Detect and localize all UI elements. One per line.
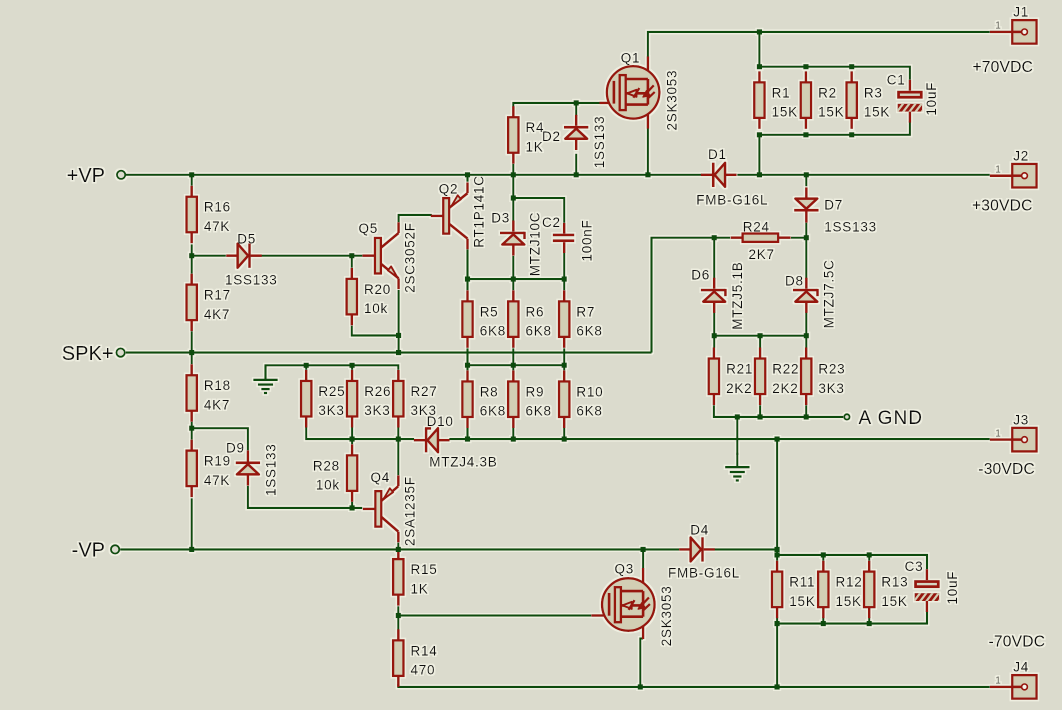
- junction: [712, 235, 717, 240]
- junction: [349, 253, 354, 258]
- wire -VP rail: [120, 548, 679, 550]
- svg-text:R18: R18: [204, 378, 231, 393]
- wire: [512, 279, 514, 290]
- svg-text:4K7: 4K7: [204, 307, 230, 322]
- wire: [791, 237, 806, 239]
- junction: [396, 437, 401, 442]
- svg-text:FMB-G16L: FMB-G16L: [696, 192, 768, 207]
- svg-text:D8: D8: [785, 274, 804, 289]
- svg-text:J2: J2: [1013, 149, 1029, 164]
- wire Q4 base net: [248, 486, 362, 508]
- svg-text:10uF: 10uF: [945, 571, 960, 605]
- svg-text:+30VDC: +30VDC: [972, 197, 1033, 214]
- junction: [511, 363, 516, 368]
- wire: [397, 606, 399, 629]
- diode D7: [794, 187, 818, 222]
- wire R8-R10 top bus: [468, 364, 565, 366]
- wire: [575, 103, 577, 116]
- svg-text:MTZJ5.1B: MTZJ5.1B: [730, 261, 745, 329]
- svg-text:R10: R10: [576, 384, 603, 399]
- resistor R13: [864, 561, 908, 619]
- junction: [511, 277, 516, 282]
- junction: [304, 363, 309, 368]
- svg-text:6K8: 6K8: [480, 404, 506, 419]
- ground left: [253, 365, 277, 393]
- transistor Q5 2SC3052F: [362, 222, 398, 289]
- svg-text:15K: 15K: [818, 105, 844, 120]
- wire Q5 base net: [251, 255, 363, 257]
- junction: [638, 684, 643, 689]
- resistor R8: [462, 370, 506, 428]
- junction: [189, 172, 194, 177]
- transistor Q3 2SK3053: [602, 578, 655, 631]
- junction: [645, 172, 650, 177]
- connector J4: [990, 660, 1037, 699]
- wire: [868, 617, 870, 623]
- svg-text:6K8: 6K8: [480, 324, 506, 339]
- junction: [574, 172, 579, 177]
- svg-text:10uF: 10uF: [924, 82, 939, 116]
- svg-text:1SS133: 1SS133: [592, 116, 607, 169]
- resistor R25: [301, 370, 345, 428]
- wire: [805, 405, 807, 417]
- svg-text:R12: R12: [836, 575, 863, 590]
- svg-text:100nF: 100nF: [580, 219, 595, 261]
- wire bias bus: [468, 278, 565, 280]
- junction: [189, 350, 194, 355]
- svg-text:R1: R1: [772, 85, 791, 100]
- wire: [466, 279, 468, 290]
- svg-text:MTZJ10C: MTZJ10C: [528, 212, 543, 277]
- wire: [776, 555, 778, 561]
- junction: [511, 172, 516, 177]
- svg-text:R3: R3: [864, 85, 883, 100]
- svg-text:R19: R19: [204, 454, 231, 469]
- resistor R1: [754, 71, 798, 129]
- junction: [775, 547, 780, 552]
- svg-text:R23: R23: [818, 362, 845, 377]
- wire: [805, 223, 807, 238]
- svg-text:D4: D4: [690, 523, 709, 538]
- svg-text:D10: D10: [427, 414, 454, 429]
- svg-text:R28: R28: [313, 458, 340, 473]
- node -VP: [72, 540, 120, 562]
- junction: [465, 172, 470, 177]
- wire A GND bus: [714, 405, 843, 417]
- wire: [512, 164, 514, 175]
- wire: [776, 624, 778, 687]
- resistor R20: [347, 268, 391, 326]
- svg-text:R11: R11: [789, 575, 815, 590]
- junction: [350, 505, 355, 510]
- svg-text:RT1P141C: RT1P141C: [472, 175, 487, 248]
- resistor R21: [709, 348, 753, 406]
- wire Q5-Q2 net: [399, 215, 432, 222]
- junction: [562, 277, 567, 282]
- svg-text:3K3: 3K3: [364, 403, 390, 418]
- wire: [805, 312, 807, 336]
- connector J3: [990, 412, 1037, 451]
- wire: [191, 498, 193, 549]
- svg-text:R8: R8: [480, 384, 499, 399]
- svg-text:1SS133: 1SS133: [824, 220, 877, 235]
- svg-text:R17: R17: [204, 288, 231, 303]
- resistor R12: [818, 561, 862, 619]
- wire: [822, 555, 824, 561]
- svg-text:R26: R26: [364, 384, 391, 399]
- svg-text:R27: R27: [411, 384, 438, 399]
- junction: [775, 621, 780, 626]
- svg-text:J3: J3: [1013, 412, 1029, 427]
- wire Q5 emitter net: [398, 290, 400, 353]
- svg-text:R20: R20: [364, 282, 391, 297]
- svg-text:D1: D1: [708, 147, 727, 162]
- svg-text:R5: R5: [480, 304, 499, 319]
- connector J1: [990, 5, 1037, 44]
- svg-text:6K8: 6K8: [576, 324, 602, 339]
- junction: [189, 253, 194, 258]
- capacitor C1 body: [887, 73, 939, 123]
- svg-text:R2: R2: [818, 85, 837, 100]
- junction: [465, 363, 470, 368]
- junction: [757, 132, 762, 137]
- wire: [466, 250, 468, 280]
- junction: [574, 100, 579, 105]
- svg-text:15K: 15K: [772, 105, 798, 120]
- svg-text:15K: 15K: [864, 105, 890, 120]
- junction: [735, 414, 740, 419]
- junction: [396, 547, 401, 552]
- wire: [713, 336, 715, 348]
- svg-text:-70VDC: -70VDC: [989, 633, 1046, 650]
- resistor R19: [187, 440, 231, 498]
- svg-text:2SA1235F: 2SA1235F: [403, 476, 418, 546]
- wire: [758, 32, 760, 67]
- resistor R18: [187, 364, 231, 422]
- wire D9 top net: [192, 428, 248, 450]
- junction: [804, 414, 809, 419]
- junction: [867, 621, 872, 626]
- wire +70VDC line: [648, 32, 990, 57]
- svg-text:3K3: 3K3: [318, 403, 344, 418]
- wire: [822, 617, 824, 623]
- wire: [191, 422, 193, 440]
- wire ground drop: [736, 417, 738, 455]
- svg-text:J4: J4: [1013, 660, 1029, 675]
- junction: [511, 437, 516, 442]
- wire: [805, 175, 807, 187]
- wire: [351, 502, 353, 508]
- svg-text:D7: D7: [824, 198, 843, 213]
- svg-text:-VP: -VP: [72, 540, 105, 562]
- svg-text:R7: R7: [576, 304, 595, 319]
- wire -30VDC line: [449, 438, 990, 440]
- svg-text:Q4: Q4: [371, 470, 391, 485]
- junction: [712, 333, 717, 338]
- svg-text:R24: R24: [743, 219, 770, 234]
- junction: [775, 552, 780, 557]
- svg-text:6K8: 6K8: [526, 404, 552, 419]
- wire: [759, 336, 761, 348]
- resistor R9: [508, 370, 552, 428]
- junction: [775, 437, 780, 442]
- wire: [758, 135, 760, 175]
- svg-text:MTZJ7.5C: MTZJ7.5C: [821, 259, 836, 328]
- wire: [397, 427, 399, 439]
- wire: [512, 428, 514, 439]
- wire: [563, 428, 565, 439]
- wire Q3 source net: [640, 639, 643, 687]
- wire: [776, 617, 778, 623]
- wire R1-C1 top bus: [759, 67, 910, 80]
- svg-text:Q3: Q3: [615, 562, 635, 577]
- svg-text:10k: 10k: [364, 301, 388, 316]
- wire: [776, 549, 778, 555]
- svg-text:2SK3053: 2SK3053: [665, 70, 680, 131]
- svg-text:1: 1: [995, 428, 1001, 439]
- resistor R2: [801, 71, 845, 129]
- transistor Q4 2SA1235F: [363, 475, 399, 542]
- svg-text:10k: 10k: [316, 478, 340, 493]
- svg-text:2SC3052F: 2SC3052F: [403, 222, 418, 293]
- svg-text:1SS133: 1SS133: [225, 272, 278, 287]
- wire: [512, 348, 514, 370]
- svg-text:MTZJ4.3B: MTZJ4.3B: [429, 455, 497, 470]
- junction: [757, 29, 762, 34]
- resistor R16: [187, 186, 231, 244]
- junction: [849, 132, 854, 137]
- svg-text:R22: R22: [772, 362, 799, 377]
- wire: [191, 331, 193, 352]
- junction: [465, 277, 470, 282]
- svg-text:47K: 47K: [204, 219, 230, 234]
- resistor R24: [731, 219, 791, 262]
- resistor R14: [393, 629, 437, 687]
- resistor R27: [393, 370, 437, 428]
- svg-text:4K7: 4K7: [204, 398, 230, 413]
- svg-text:3K3: 3K3: [818, 381, 844, 396]
- svg-text:6K8: 6K8: [526, 324, 552, 339]
- wire Q3 gate net: [398, 614, 591, 616]
- svg-text:FMB-G16L: FMB-G16L: [668, 566, 740, 581]
- wire: [192, 255, 226, 257]
- svg-text:2SK3053: 2SK3053: [659, 585, 674, 646]
- capacitor C3 body: [905, 559, 960, 612]
- resistor R4: [508, 106, 544, 164]
- diode D9: [236, 450, 260, 485]
- junction: [562, 363, 567, 368]
- junction: [804, 235, 809, 240]
- wire R11-C3 top bus: [777, 555, 927, 569]
- wire: [512, 256, 514, 279]
- wire: [351, 427, 353, 439]
- wire: [713, 312, 715, 336]
- svg-text:SPK+: SPK+: [62, 343, 114, 365]
- zener diode D3: [500, 221, 525, 256]
- wire: [805, 336, 807, 348]
- wire: [563, 348, 565, 370]
- svg-text:R21: R21: [726, 362, 753, 377]
- junction: [396, 333, 401, 338]
- transistor Q1 2SK3053 leads: [600, 57, 648, 129]
- node SPK+: [62, 343, 125, 365]
- resistor R6: [508, 290, 552, 348]
- svg-text:1: 1: [995, 165, 1001, 176]
- resistor R23: [801, 348, 845, 406]
- svg-text:R25: R25: [318, 384, 345, 399]
- svg-text:-30VDC: -30VDC: [978, 461, 1035, 478]
- ground right: [725, 453, 749, 481]
- wire zener bus: [714, 335, 806, 337]
- wire: [512, 175, 514, 221]
- wire C2 top net: [513, 198, 564, 223]
- wire: [563, 253, 565, 279]
- svg-text:Q1: Q1: [621, 51, 641, 66]
- junction: [189, 426, 194, 431]
- junction: [867, 552, 872, 557]
- junction: [641, 547, 646, 552]
- junction: [803, 64, 808, 69]
- resistor R28: [313, 444, 357, 502]
- junction: [350, 363, 355, 368]
- resistor R26: [347, 370, 391, 428]
- wire: [191, 353, 193, 365]
- svg-text:1K: 1K: [411, 581, 429, 596]
- svg-text:R15: R15: [411, 562, 438, 577]
- svg-text:470: 470: [411, 663, 436, 678]
- resistor R10: [559, 370, 603, 428]
- junction: [821, 552, 826, 557]
- transistor Q2 RT1P141C: [431, 182, 468, 249]
- wire -70VDC line: [398, 684, 990, 687]
- wire R1-C1 bottom bus: [759, 121, 910, 135]
- resistor R5: [462, 290, 506, 348]
- svg-text:R9: R9: [526, 384, 545, 399]
- svg-text:R13: R13: [881, 575, 908, 590]
- wire: [351, 439, 353, 444]
- node A GND: [844, 408, 923, 429]
- svg-text:D5: D5: [237, 232, 256, 247]
- wire R20 bottom net: [352, 326, 399, 336]
- junction: [396, 350, 401, 355]
- junction: [758, 414, 763, 419]
- wire -30V line left: [306, 427, 414, 439]
- diode D2: [564, 115, 588, 150]
- wire Q4 emitter net: [397, 439, 399, 475]
- svg-text:1SS133: 1SS133: [263, 443, 278, 496]
- wire: [351, 365, 353, 370]
- wire Q3 drain net: [642, 549, 644, 568]
- wire: [305, 365, 307, 370]
- diode D4: [679, 537, 715, 561]
- transistor Q3 2SK3053 leads: [591, 568, 643, 639]
- svg-text:A GND: A GND: [859, 408, 924, 429]
- wire SPK+ rail: [126, 352, 652, 354]
- svg-text:D2: D2: [542, 129, 561, 144]
- transistor Q1 2SK3053: [607, 66, 660, 119]
- capacitor C2: [542, 215, 595, 261]
- junction: [189, 547, 194, 552]
- junction: [804, 172, 809, 177]
- junction: [804, 333, 809, 338]
- wire: [575, 154, 577, 175]
- svg-text:D6: D6: [691, 268, 710, 283]
- wire: [776, 439, 778, 549]
- junction: [511, 195, 516, 200]
- wire: [397, 543, 399, 550]
- wire R11-C3 bottom bus: [777, 611, 927, 623]
- wire: [805, 238, 807, 279]
- wire R25-R27 top bus: [266, 365, 399, 379]
- junction: [562, 437, 567, 442]
- svg-text:Q5: Q5: [359, 221, 379, 236]
- junction: [849, 64, 854, 69]
- svg-text:6K8: 6K8: [576, 404, 602, 419]
- svg-text:2K7: 2K7: [749, 247, 775, 262]
- svg-text:Q2: Q2: [439, 182, 459, 197]
- junction: [758, 333, 763, 338]
- svg-text:R6: R6: [526, 304, 545, 319]
- zener diode D10: [414, 428, 450, 452]
- svg-text:J1: J1: [1013, 5, 1029, 20]
- wire: [715, 548, 778, 550]
- svg-text:+70VDC: +70VDC: [973, 59, 1034, 76]
- svg-text:15K: 15K: [789, 594, 815, 609]
- junction: [775, 684, 780, 689]
- svg-text:C2: C2: [542, 215, 561, 230]
- resistor R11: [772, 561, 816, 619]
- wire SPK+ riser: [652, 238, 731, 353]
- wire +VP rail: [126, 174, 702, 176]
- junction: [757, 64, 762, 69]
- wire Q1 gate net: [513, 103, 599, 107]
- svg-text:+VP: +VP: [67, 165, 105, 187]
- svg-text:2K2: 2K2: [772, 381, 798, 396]
- wire: [713, 238, 715, 279]
- wire: [351, 256, 353, 268]
- junction: [821, 621, 826, 626]
- svg-text:C3: C3: [905, 559, 924, 574]
- wire: [563, 279, 565, 290]
- wire: [759, 405, 761, 417]
- wire +30VDC line: [737, 174, 990, 176]
- junction: [350, 437, 355, 442]
- svg-text:15K: 15K: [881, 594, 907, 609]
- node +VP: [67, 165, 126, 187]
- diode D5: [226, 244, 262, 268]
- svg-text:R16: R16: [204, 200, 231, 215]
- wire: [191, 175, 193, 186]
- svg-text:1K: 1K: [526, 140, 544, 155]
- junction: [757, 172, 762, 177]
- wire: [191, 244, 193, 273]
- svg-text:1: 1: [995, 21, 1001, 32]
- svg-text:D9: D9: [226, 441, 245, 456]
- junction: [803, 132, 808, 137]
- connector J2: [990, 149, 1037, 188]
- svg-text:47K: 47K: [204, 473, 230, 488]
- svg-text:15K: 15K: [836, 594, 862, 609]
- svg-text:1: 1: [995, 676, 1001, 687]
- svg-text:C1: C1: [887, 73, 906, 88]
- resistor R17: [187, 274, 231, 332]
- wire: [466, 175, 468, 182]
- zener diode D8: [793, 278, 818, 313]
- svg-text:D3: D3: [491, 211, 510, 226]
- wire: [868, 555, 870, 561]
- zener diode D6: [701, 278, 726, 313]
- junction: [396, 613, 401, 618]
